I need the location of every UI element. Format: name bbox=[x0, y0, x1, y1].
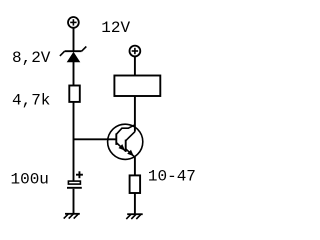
svg-text:100u: 100u bbox=[11, 171, 49, 189]
svg-text:4,7k: 4,7k bbox=[12, 91, 50, 109]
svg-text:10-47: 10-47 bbox=[148, 168, 196, 186]
svg-text:8,2V: 8,2V bbox=[12, 49, 51, 67]
svg-text:12V: 12V bbox=[101, 19, 130, 37]
